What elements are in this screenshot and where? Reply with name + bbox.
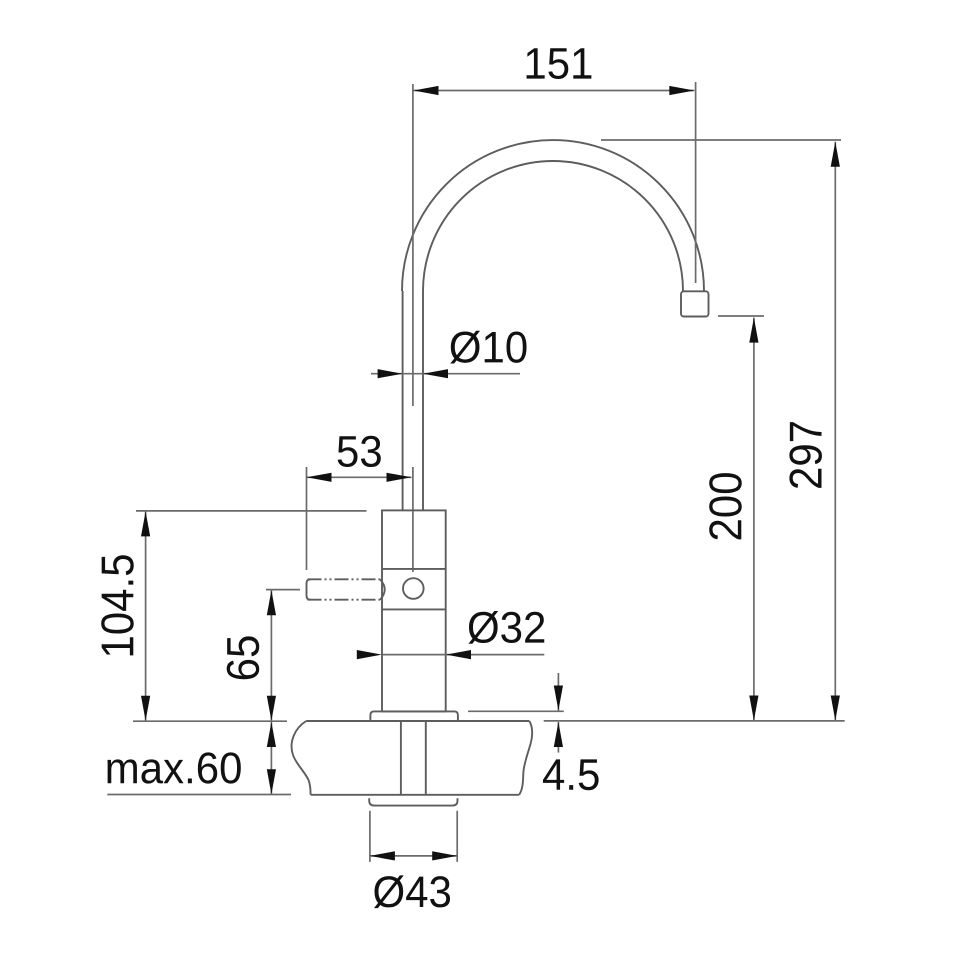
dim Ø10 left arrow <box>378 369 403 378</box>
base plate <box>370 711 458 721</box>
dim 4.5 lower arrow <box>554 722 563 747</box>
dim 104.5 bottom extension line <box>133 720 287 722</box>
dim max.60 top arrow <box>267 722 276 747</box>
spout centerline upper (also 151 left extension) <box>412 84 414 406</box>
dim Ø32 right arrow <box>446 650 471 659</box>
dim Ø10 right arrow <box>423 369 448 378</box>
spout inner arc <box>423 161 683 291</box>
dim 151 right extension line <box>695 82 697 283</box>
faucet body <box>382 510 446 711</box>
dim Ø32 left arrow <box>357 650 382 659</box>
handle top edge (phantom) <box>308 578 381 580</box>
spout tube left edge <box>402 291 404 510</box>
dim 53 right arrow <box>387 473 412 482</box>
dim 200 top extension line <box>718 315 764 317</box>
nozzle <box>681 291 709 316</box>
dim 297 line <box>834 142 836 721</box>
dim Ø43 right arrow <box>432 851 457 860</box>
dim 297 bottom arrow <box>831 696 840 721</box>
dim 151 right arrow <box>669 86 694 95</box>
dim 297 top extension line <box>601 139 841 141</box>
countertop right break edge <box>519 721 532 795</box>
countertop top edge <box>306 720 529 722</box>
dim 4.5 upper line <box>557 673 559 711</box>
dim 53 left arrow <box>307 473 332 482</box>
dim 151 text <box>527 48 592 79</box>
dim 104.5 bottom arrow <box>141 696 150 721</box>
dim Ø10 line <box>371 373 520 375</box>
dim 53 text <box>338 436 381 467</box>
spout tube right edge <box>422 291 424 510</box>
dim Ø43 left extension line <box>369 811 371 862</box>
dim 65 top arrow <box>267 590 276 615</box>
dim 4.5 bottom extension line <box>544 720 845 722</box>
shank left edge <box>400 721 402 795</box>
dim 151 left arrow <box>414 86 439 95</box>
dim 151 line <box>414 90 695 92</box>
dim Ø43 right extension line <box>456 811 458 862</box>
dim Ø43 left arrow <box>370 851 395 860</box>
handle pivot circle <box>403 578 424 599</box>
dim 65 text <box>227 636 260 679</box>
dim Ø32 text <box>468 611 544 644</box>
spout centerline lower <box>412 467 414 572</box>
body divider lower <box>382 608 446 610</box>
countertop bottom edge <box>311 794 519 796</box>
dim 53 line <box>307 476 412 478</box>
dim max.60 bottom extension line <box>107 794 291 796</box>
dim 200 text <box>709 473 742 539</box>
dim Ø10 text <box>450 331 526 364</box>
dim Ø43 line <box>370 855 457 857</box>
dim 65 line <box>270 590 272 721</box>
dim 200 bottom arrow <box>749 696 758 721</box>
dim max.60 bottom arrow <box>267 769 276 794</box>
dim 4.5 upper arrow <box>554 686 563 711</box>
dim Ø43 text <box>374 875 450 908</box>
handle right end cap <box>380 579 385 599</box>
handle left end cap <box>307 579 311 599</box>
countertop left break edge <box>292 721 311 795</box>
shank right edge <box>425 721 427 795</box>
dim Ø32 line <box>382 654 545 656</box>
dim 104.5 line <box>145 511 147 720</box>
dim 104.5 text <box>101 555 134 655</box>
dim 104.5 top arrow <box>141 511 150 536</box>
dim 200 top arrow <box>749 318 758 343</box>
dim 4.5 lower line <box>557 722 559 753</box>
dim max.60 text <box>107 752 240 783</box>
dim 65 top extension line <box>266 589 300 591</box>
dim 200 line <box>753 318 755 721</box>
dim 53 left extension line <box>306 467 308 570</box>
dim 104.5 top extension line <box>136 510 367 512</box>
dim 4.5 top extension line <box>468 710 564 712</box>
dim max.60 line <box>270 722 272 794</box>
dim 297 top arrow <box>831 142 840 167</box>
body divider upper <box>382 568 446 570</box>
dim 297 text <box>789 422 822 488</box>
dim 65 bottom arrow <box>267 696 276 721</box>
dim 4.5 text <box>543 759 599 790</box>
mounting nut <box>369 798 457 805</box>
spout outer arc <box>402 140 704 291</box>
handle bottom edge (phantom) <box>308 599 381 601</box>
